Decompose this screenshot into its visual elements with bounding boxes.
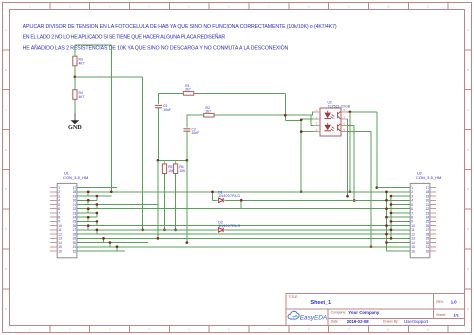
wire row 2	[77, 191, 410, 193]
junction	[141, 229, 144, 232]
junction	[349, 110, 352, 113]
wire rail	[158, 159, 187, 161]
junction	[300, 118, 303, 121]
title block values	[311, 299, 460, 323]
wire row 4 run	[213, 199, 411, 201]
junction	[96, 229, 99, 232]
wire from U3 pin 6	[348, 125, 355, 200]
wire U3 pin 2	[301, 118, 320, 120]
svg-text:EasyEDA: EasyEDA	[300, 315, 327, 322]
junction	[186, 159, 189, 162]
junction	[96, 203, 99, 206]
junction	[96, 220, 99, 223]
wire	[74, 45, 76, 56]
wire	[142, 77, 144, 230]
svg-text:H: H	[5, 307, 7, 311]
junction	[110, 190, 113, 193]
wire	[390, 196, 392, 238]
U3 phototransistor 2	[338, 124, 341, 131]
svg-text:2019-02-08: 2019-02-08	[347, 319, 370, 324]
junction	[240, 199, 243, 202]
resistor R4	[73, 90, 85, 100]
junction	[385, 199, 388, 202]
wire from U3 pin 5	[348, 132, 372, 247]
wire row 12	[77, 233, 410, 235]
wire to U3 pin 1	[311, 112, 320, 115]
resistor R1	[183, 84, 193, 95]
junction	[390, 212, 393, 215]
ground	[68, 113, 82, 131]
wire	[75, 44, 111, 46]
junction	[211, 190, 214, 193]
U3 LED 2	[324, 123, 334, 131]
junction	[346, 195, 349, 198]
wire	[164, 160, 166, 164]
wire row 4 stub	[77, 199, 97, 201]
wire jog	[96, 205, 98, 209]
wire row 3	[77, 195, 111, 197]
junction	[102, 237, 105, 240]
svg-text:Date:: Date:	[331, 320, 339, 324]
wire	[240, 200, 242, 208]
wire row 15	[77, 246, 410, 248]
wire	[186, 160, 188, 242]
wire	[348, 111, 377, 113]
junction	[109, 241, 112, 244]
wire	[159, 93, 184, 104]
junction	[87, 216, 90, 219]
wire row 13	[77, 237, 410, 239]
wire jog	[103, 238, 105, 242]
wire jog	[96, 230, 98, 234]
svg-text:Sheet_1: Sheet_1	[311, 300, 332, 306]
svg-text:11: 11	[426, 4, 429, 8]
U3 phototransistor 1	[338, 112, 341, 119]
wire	[158, 108, 160, 161]
wire	[186, 131, 188, 160]
svg-text:1/1: 1/1	[453, 312, 459, 317]
svg-text:1.0: 1.0	[451, 299, 457, 304]
svg-text:10: 10	[386, 4, 390, 8]
title block	[286, 294, 465, 326]
svg-text:A: A	[467, 28, 469, 32]
wire jog	[87, 209, 89, 213]
wire	[74, 99, 76, 113]
wire	[386, 243, 388, 251]
svg-text:TLP521-2XGB: TLP521-2XGB	[328, 104, 351, 108]
svg-text:REV:: REV:	[436, 300, 444, 304]
svg-text:Company:: Company:	[331, 311, 347, 315]
wire row 1 run	[377, 187, 410, 189]
resistor R3	[73, 56, 85, 66]
wire jog	[87, 200, 89, 204]
wire U3 pin 4	[301, 131, 320, 133]
svg-text:32: 32	[73, 249, 77, 253]
junction	[96, 195, 99, 198]
junction	[87, 190, 90, 193]
wire row 10	[77, 225, 410, 227]
wire	[187, 115, 204, 127]
svg-text:16: 16	[58, 249, 62, 253]
svg-text:F: F	[5, 227, 7, 231]
connector U1 CON_3-5_HM body	[57, 172, 88, 258]
svg-text:A: A	[5, 28, 7, 32]
wire feed row 3	[391, 195, 410, 197]
svg-text:32: 32	[426, 249, 430, 253]
junction	[390, 203, 393, 206]
wire jog	[96, 196, 98, 200]
frame row ticks and labels	[3, 50, 472, 289]
wire jog	[87, 217, 89, 221]
wire feed row 9	[391, 220, 410, 222]
wire row 8	[77, 216, 97, 218]
junction	[300, 130, 303, 133]
junction node divider	[74, 75, 77, 78]
wire	[175, 160, 177, 164]
junction	[390, 237, 393, 240]
junction	[87, 199, 90, 202]
svg-text:B: B	[5, 68, 7, 72]
wire	[164, 174, 166, 230]
svg-text:10nF: 10nF	[192, 131, 200, 135]
wire jog	[87, 226, 89, 230]
wire row 5	[77, 204, 158, 206]
svg-text:E: E	[5, 187, 7, 191]
junction	[96, 212, 99, 215]
svg-text:UserSupport: UserSupport	[404, 319, 429, 324]
diode D1	[216, 191, 240, 203]
diode D2	[216, 220, 240, 232]
junction	[116, 245, 119, 248]
svg-text:CON_3-5_HM: CON_3-5_HM	[416, 175, 441, 180]
junction	[349, 190, 352, 193]
wire from U3 pin 7	[347, 119, 349, 196]
wire jog	[87, 192, 89, 196]
svg-text:TITLE:: TITLE:	[289, 295, 299, 299]
wire feed row 7	[391, 212, 410, 214]
svg-text:11: 11	[426, 327, 429, 331]
capacitor C1	[155, 104, 171, 112]
svg-text:Sheet:: Sheet:	[436, 313, 446, 317]
capacitor C2	[183, 127, 199, 135]
U3 pins	[314, 112, 348, 132]
junction	[157, 159, 160, 162]
svg-text:H: H	[467, 307, 469, 311]
U1 pin numbers	[58, 186, 76, 253]
svg-text:Drawn By:: Drawn By:	[383, 320, 399, 324]
svg-text:Your Company: Your Company	[348, 310, 379, 315]
wire row 1 stub	[77, 187, 117, 189]
wire row 16	[77, 250, 125, 252]
junction	[390, 229, 393, 232]
svg-text:E: E	[467, 187, 469, 191]
svg-text:APLICAR DIVISOR DE TENSION EN: APLICAR DIVISOR DE TENSION EN LA FOTOCEL…	[23, 24, 337, 30]
junction	[157, 237, 160, 240]
wire	[212, 192, 214, 200]
svg-text:CON_3-5_HM: CON_3-5_HM	[63, 175, 88, 180]
wire jog	[96, 213, 98, 217]
resistor R5	[162, 164, 174, 174]
title block labels	[289, 295, 447, 324]
junction	[370, 245, 373, 248]
junction	[385, 241, 388, 244]
U1 pins left side	[50, 188, 57, 251]
svg-text:HE AÑADIDO LAS 2 RESISTENCIAS: HE AÑADIDO LAS 2 RESISTENCIAS DE 10K YA …	[23, 44, 289, 51]
resistor R6	[174, 164, 186, 174]
wire	[285, 120, 301, 191]
EasyEDA logo	[288, 311, 327, 321]
junction	[174, 229, 177, 232]
svg-text:B: B	[467, 68, 469, 72]
svg-text:F: F	[467, 227, 469, 231]
junction	[87, 224, 90, 227]
wire row 6	[77, 208, 410, 210]
junction	[375, 186, 378, 189]
wire	[284, 93, 286, 120]
resistor R2	[204, 106, 214, 117]
svg-text:4K7: 4K7	[79, 61, 85, 65]
junction	[284, 114, 287, 117]
junction	[385, 224, 388, 227]
svg-text:EN EL LADO 2 NO LO HE APLICADO: EN EL LADO 2 NO LO HE APLICADO SI SE TIE…	[23, 33, 226, 40]
svg-text:2k7: 2k7	[206, 109, 212, 113]
svg-text:10nF: 10nF	[163, 108, 171, 112]
wire	[386, 192, 388, 243]
svg-text:1N4007RLG: 1N4007RLG	[218, 194, 240, 198]
svg-text:2k7: 2k7	[185, 88, 191, 92]
junction	[385, 233, 388, 236]
connector U2 CON_3-5_HM body	[410, 172, 441, 258]
U2 pins right side	[430, 188, 436, 251]
wire	[110, 45, 112, 192]
svg-text:10: 10	[386, 327, 390, 331]
U3 LED 1	[324, 111, 334, 119]
junction	[300, 190, 303, 193]
wire row 7	[77, 212, 97, 214]
optocoupler U3 TLP521-2XGB body	[320, 101, 350, 136]
junction	[390, 220, 393, 223]
wire feed row 14	[387, 242, 411, 244]
wire feed row 16	[387, 250, 411, 252]
wire	[349, 112, 351, 192]
svg-text:1N4007RLG: 1N4007RLG	[218, 224, 240, 228]
svg-text:10K: 10K	[179, 169, 186, 173]
junction	[87, 207, 90, 210]
wire	[194, 92, 285, 94]
wire	[376, 112, 378, 188]
wire jog	[109, 243, 111, 247]
wire	[175, 174, 177, 230]
junction	[353, 199, 356, 202]
wire row 14	[77, 242, 148, 244]
wire	[157, 160, 159, 238]
wire jog	[96, 221, 98, 225]
junction	[385, 207, 388, 210]
svg-text:GND: GND	[68, 124, 82, 131]
wire jog	[116, 247, 118, 251]
wire feed row 5	[391, 204, 410, 206]
junction	[390, 195, 393, 198]
wire	[214, 114, 311, 116]
wire	[74, 66, 76, 90]
wire to U3 pin 3	[311, 115, 320, 125]
wire row 11	[77, 229, 410, 231]
svg-text:4K7: 4K7	[79, 95, 85, 99]
junction	[186, 241, 189, 244]
wire feed row 8	[387, 216, 411, 218]
junction	[163, 229, 166, 232]
junction	[385, 216, 388, 219]
U2 pin numbers	[411, 186, 429, 253]
wire	[75, 76, 143, 78]
svg-text:16: 16	[411, 249, 415, 253]
junction	[385, 190, 388, 193]
wire row 9	[77, 220, 97, 222]
